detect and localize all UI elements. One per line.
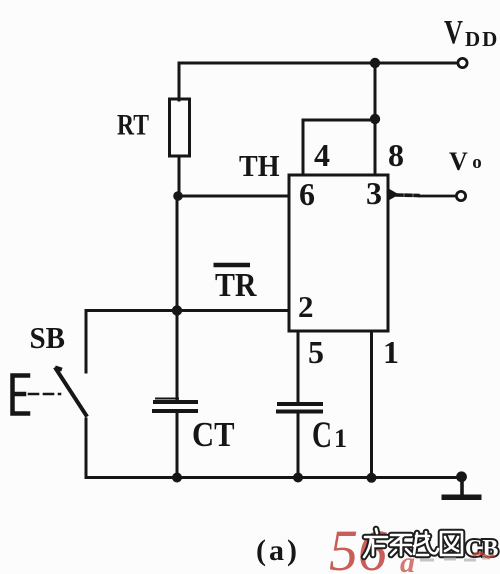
- switch SB actuator bracket: [13, 376, 29, 414]
- svg-text:5: 5: [308, 334, 324, 370]
- label Vo: [449, 147, 482, 176]
- switch SB actuator dashed link: [29, 393, 60, 396]
- wire: CT top lead: [176, 311, 179, 400]
- capacitor C1 top plate: [279, 402, 321, 406]
- svg-text:TH: TH: [239, 148, 280, 183]
- capacitor CT top plate: [156, 398, 178, 400]
- wire: CT bottom lead: [176, 413, 179, 477]
- ground symbol: [460, 477, 464, 494]
- svg-text:V: V: [444, 14, 463, 51]
- svg-text:SB: SB: [30, 320, 66, 355]
- watermark faint gray marks: [420, 558, 490, 560]
- label C1: [312, 415, 347, 456]
- wire: pin 3 output stub: [389, 189, 400, 201]
- svg-text:o: o: [472, 152, 482, 173]
- wire: RT bottom lead: [178, 156, 181, 196]
- node: junction C1 / ground rail: [293, 473, 303, 483]
- node: junction ground rail / ground symbol: [456, 471, 467, 482]
- watermark outlined text 广东龙网: [364, 529, 462, 557]
- wire: pin 5 lead down to C1: [297, 331, 300, 403]
- svg-text:1: 1: [334, 424, 347, 453]
- label TR (with overline): [214, 265, 257, 304]
- node: junction TR / CT: [172, 305, 182, 315]
- wire: left column down to TR node: [176, 196, 179, 311]
- wire: SB top lead: [85, 311, 88, 373]
- terminal VDD (open circle): [458, 58, 467, 67]
- svg-text:C: C: [312, 415, 332, 456]
- svg-text:3: 3: [366, 175, 382, 211]
- svg-text:CB: CB: [465, 536, 498, 562]
- svg-text:RT: RT: [117, 109, 149, 142]
- svg-text:4: 4: [314, 137, 330, 173]
- svg-text:1: 1: [383, 334, 399, 370]
- svg-text:(a): (a): [256, 534, 300, 567]
- svg-text:V: V: [449, 147, 468, 176]
- watermark outlined text CB: [465, 536, 498, 562]
- capacitor CT bottom plate: [154, 409, 196, 413]
- wire: SB corner to pin 2 of IC: [86, 309, 289, 312]
- wire: bottom ground rail: [86, 476, 460, 479]
- watermark red mark right of CB: [473, 553, 494, 557]
- wire: pin 1 lead to ground rail: [370, 331, 373, 477]
- wire: top rail down to resistor RT: [178, 63, 181, 100]
- resistor RT body: [170, 99, 190, 156]
- svg-text:DD: DD: [465, 27, 499, 51]
- node: junction CT / ground rail: [172, 473, 182, 483]
- svg-text:2: 2: [298, 289, 314, 324]
- node: junction at reset loop top: [370, 114, 380, 124]
- svg-text:6: 6: [299, 176, 315, 212]
- wire: pin 6 TH to IC: [178, 195, 289, 198]
- wire: SB bottom lead: [85, 419, 88, 477]
- op-amp U1 555 timer IC body: [289, 175, 388, 331]
- label VDD: [444, 14, 499, 51]
- switch SB blade: [56, 368, 86, 415]
- wire: C1 bottom lead: [297, 413, 300, 477]
- svg-text:CT: CT: [192, 415, 235, 454]
- node: junction RT / TH: [173, 191, 183, 201]
- svg-text:TR: TR: [215, 267, 257, 304]
- node: junction pin1 / ground rail: [367, 473, 377, 483]
- wire: pin4/pin8 loop above IC: [303, 120, 375, 175]
- node: junction top rail / pin8 drop: [370, 58, 380, 68]
- wire: VDD top rail: [179, 62, 456, 65]
- capacitor C1 bottom plate: [278, 410, 321, 414]
- terminal Vo (open circle): [456, 191, 465, 200]
- svg-text:8: 8: [388, 137, 404, 173]
- wire: drop from top rail to reset loop: [374, 63, 377, 119]
